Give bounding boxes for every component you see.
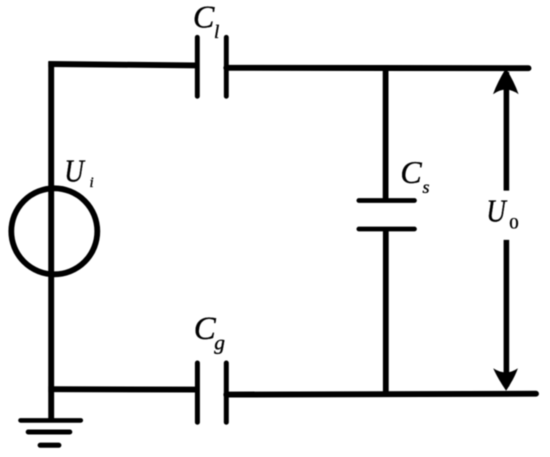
voltage source Ui: [11, 188, 97, 274]
wire Cs top vertical: [383, 66, 389, 201]
svg-text:U: U: [486, 194, 508, 228]
svg-text:C: C: [400, 154, 422, 190]
wire bottom right segment: [226, 391, 536, 398]
svg-text:s: s: [423, 177, 430, 197]
arrow U0 upper: [493, 68, 519, 190]
wire top right segment: [226, 65, 528, 71]
ground: [21, 420, 81, 445]
wire top left segment: [48, 64, 197, 65]
svg-text:0: 0: [509, 215, 518, 232]
svg-text:g: g: [214, 331, 225, 355]
label Cs: [400, 154, 429, 197]
label U0: [486, 194, 518, 232]
svg-text:C: C: [193, 0, 215, 35]
svg-text:U: U: [64, 155, 86, 189]
svg-text:l: l: [214, 22, 219, 43]
capacitor Cg: [197, 363, 226, 422]
label Ui: [64, 155, 93, 191]
capacitor Cl: [197, 37, 226, 96]
wire bottom left segment: [48, 386, 197, 392]
svg-text:i: i: [90, 175, 94, 191]
label Cg: [194, 311, 226, 355]
label Cl: [193, 0, 219, 43]
arrow U0 lower: [493, 240, 518, 391]
wire Cs bottom vertical: [383, 229, 389, 394]
capacitor Cs: [359, 201, 415, 230]
wire left vertical: [48, 62, 54, 423]
